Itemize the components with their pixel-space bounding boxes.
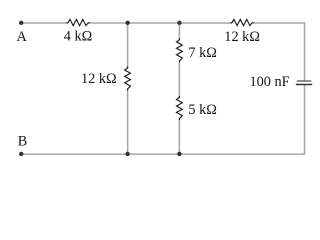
capacitor C 100 nF bottom plate: [296, 84, 313, 86]
resistor 7 kOhm (vertical, middle branch upper): [177, 38, 183, 62]
wire: top middle, 4k resistor to 12k top resistor: [88, 22, 232, 24]
junction: top wire / branch 2: [177, 21, 181, 25]
wire: vertical branch 2 middle lead (7k resistor to 5k resistor): [178, 61, 180, 98]
svg-text:7 kΩ: 7 kΩ: [188, 45, 217, 61]
junction: top wire / branch 1: [125, 21, 129, 25]
node B terminal dot: [19, 152, 23, 156]
wire: right side, capacitor bottom plate down to bottom-right corner: [304, 85, 306, 155]
svg-text:B: B: [18, 134, 28, 150]
wire: top left, node A to 4k resistor: [21, 22, 68, 24]
wire: vertical branch 2 lower lead (5k resistor to bottom wire): [178, 119, 180, 155]
resistor 12 kOhm (vertical, middle-left branch): [125, 66, 131, 90]
capacitor C 100 nF top plate: [297, 80, 312, 82]
svg-text:5 kΩ: 5 kΩ: [188, 102, 217, 118]
wire: vertical branch 1 upper lead (top wire to 12k vertical resistor): [127, 23, 129, 68]
resistor 5 kOhm (vertical, middle branch lower): [177, 96, 183, 120]
wire: vertical branch 1 lower lead (12k vertical resistor to bottom wire): [127, 89, 129, 154]
svg-text:100 nF: 100 nF: [250, 74, 290, 90]
wire: vertical branch 2 upper lead (top wire to 7k resistor): [178, 23, 180, 40]
resistor 12 kOhm (horizontal, top right): [230, 19, 253, 25]
svg-text:12 kΩ: 12 kΩ: [224, 29, 260, 45]
node A terminal dot: [19, 21, 23, 25]
resistor 4 kOhm (horizontal, top left): [67, 19, 90, 25]
svg-text:4 kΩ: 4 kΩ: [64, 29, 93, 45]
wire: bottom, node B to bottom-right corner: [21, 153, 305, 155]
wire: right side, corner down to capacitor top plate: [304, 22, 306, 80]
svg-text:12 kΩ: 12 kΩ: [81, 71, 117, 87]
junction: bottom wire / branch 1: [125, 152, 129, 156]
junction: bottom wire / branch 2: [177, 152, 181, 156]
wire: top right, 12k resistor to top-right corner: [252, 22, 305, 24]
svg-text:A: A: [17, 29, 28, 45]
